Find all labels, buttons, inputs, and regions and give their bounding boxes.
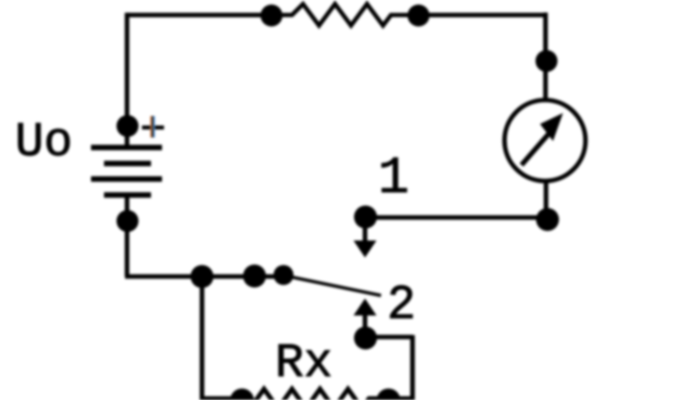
meter needle	[522, 130, 553, 165]
node resistor left	[261, 5, 283, 27]
resistor R1 zigzag top	[271, 4, 419, 26]
battery B1 plate 4 short	[104, 192, 151, 198]
svg-text:Rx: Rx	[275, 337, 333, 391]
wire right vertical to meter	[543, 13, 548, 101]
battery plus sign	[142, 126, 164, 130]
node switch position 1	[354, 206, 377, 229]
node Rx right	[377, 389, 401, 400]
node meter bottom	[536, 208, 559, 231]
node switch row left	[191, 265, 214, 288]
wire battery top stub	[125, 126, 130, 148]
node switch row middle	[243, 265, 266, 288]
wire battery to switch row	[125, 221, 284, 277]
wire meter bottom	[544, 181, 549, 220]
svg-text:1: 1	[378, 149, 409, 208]
node Rx left	[230, 389, 254, 400]
wire left branch down to Rx	[200, 277, 205, 400]
svg-text:Uo: Uo	[15, 116, 73, 170]
svg-text:2: 2	[387, 279, 416, 333]
arrow position 2 up	[354, 299, 377, 316]
wire position 2 to right branch	[365, 335, 413, 400]
switch blade	[284, 276, 381, 296]
node switch position 2	[354, 327, 377, 350]
meter needle arrowhead	[540, 113, 563, 141]
wire switch position 1 to meter	[366, 215, 547, 220]
node resistor right	[408, 5, 430, 27]
arrow position 1 down	[363, 226, 368, 242]
node switch pivot	[274, 265, 294, 285]
meter M1 circle	[505, 100, 586, 181]
battery B1 plate 2 short	[104, 161, 151, 167]
wire top horizontal	[127, 13, 546, 18]
resistor Rx zigzag bottom	[202, 389, 413, 400]
battery B1 plate 1 long	[91, 145, 162, 151]
wire battery bottom stub	[125, 195, 130, 221]
node battery bottom	[117, 210, 139, 232]
battery B1 plate 3 long	[91, 176, 162, 182]
wire left vertical from top to battery	[125, 13, 130, 126]
node battery top	[117, 115, 139, 137]
node right vertical	[536, 50, 558, 72]
